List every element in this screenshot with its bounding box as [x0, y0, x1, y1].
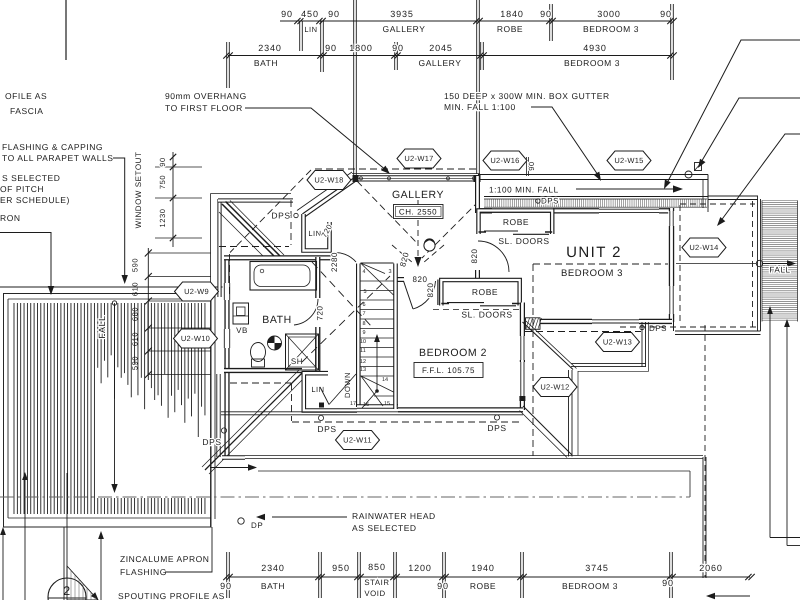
- gallery ceiling height box: [394, 205, 444, 219]
- right deck bottom edge: [675, 330, 761, 332]
- bottom leader lines under deck: [2, 529, 4, 600]
- svg-text:ROBE: ROBE: [497, 24, 523, 34]
- svg-text:DP: DP: [251, 521, 263, 530]
- hexagon U2-W16: [483, 151, 527, 170]
- gallery ceiling point marker: [424, 240, 435, 251]
- bedroom3 door arc: [478, 241, 509, 272]
- svg-text:720: 720: [316, 306, 325, 321]
- svg-text:90: 90: [527, 161, 536, 170]
- svg-text:UNIT 2: UNIT 2: [566, 244, 622, 261]
- hexagon U2-W14: [682, 238, 726, 257]
- svg-text:U2-W11: U2-W11: [343, 436, 372, 445]
- hexagon U2-W15: [607, 151, 651, 170]
- svg-text:90: 90: [220, 581, 232, 591]
- eave double line below bedroom2: [221, 411, 523, 413]
- svg-text:U2-W14: U2-W14: [689, 243, 718, 252]
- stray wall line above plan: [65, 0, 67, 60]
- deck apron top line: [0, 286, 227, 288]
- ffl box: [414, 363, 483, 378]
- svg-text:DPS: DPS: [317, 424, 336, 434]
- bathtub: [250, 262, 317, 291]
- lower roof hip pair at bedroom3 south: [523, 322, 574, 370]
- svg-text:3: 3: [388, 269, 391, 275]
- svg-text:590: 590: [131, 258, 140, 272]
- svg-text:150 DEEP x 300W MIN. BOX GUTTE: 150 DEEP x 300W MIN. BOX GUTTER: [444, 91, 610, 101]
- lower roof north parapet wall: [218, 198, 293, 202]
- linen LIN1 closet walls: [304, 214, 330, 251]
- bath south wall: [224, 368, 302, 373]
- deck fall arrow: [112, 301, 116, 305]
- gallery dashed fall V lines: [357, 181, 416, 242]
- svg-text:3935: 3935: [390, 9, 414, 19]
- svg-text:2060: 2060: [699, 563, 723, 573]
- lower roof outer thin boundary: [578, 322, 649, 456]
- svg-text:4930: 4930: [583, 43, 607, 53]
- lower roof ridge diagonals: [222, 204, 274, 256]
- svg-text:8: 8: [362, 321, 365, 327]
- window U2-W10 in bath west wall: [223, 329, 232, 348]
- svg-text:DOWN: DOWN: [343, 372, 352, 398]
- window U2-W13b in bedroom2 east wall: [519, 336, 525, 360]
- svg-text:RON: RON: [0, 213, 21, 223]
- svg-text:U2-W18: U2-W18: [314, 176, 343, 185]
- vanity basin VB: [233, 303, 249, 324]
- svg-text:ROBE: ROBE: [470, 581, 496, 591]
- robe2 left wall: [437, 280, 442, 306]
- svg-text:U2-W13: U2-W13: [603, 338, 632, 347]
- svg-text:2280: 2280: [330, 252, 339, 272]
- svg-text:SL. DOORS: SL. DOORS: [498, 236, 549, 246]
- bedroom2 east wall: [520, 303, 525, 411]
- svg-text:OFILE AS: OFILE AS: [5, 91, 47, 101]
- deck parapet inner lines: [8, 298, 211, 300]
- svg-text:U2-W17: U2-W17: [404, 154, 433, 163]
- svg-text:5: 5: [363, 289, 366, 295]
- lower roof thin boundary: [210, 194, 212, 528]
- svg-text:90: 90: [540, 9, 552, 19]
- bath door arc: [294, 299, 318, 325]
- window setout dimension line upper: [172, 152, 174, 247]
- svg-text:U2-W15: U2-W15: [614, 156, 643, 165]
- lower roof eave edge below bedroom3: [571, 363, 646, 365]
- box gutter outline: [478, 174, 708, 176]
- stair top winder lines: [361, 262, 394, 264]
- leader box gutter: [531, 107, 600, 178]
- svg-text:RAINWATER HEAD: RAINWATER HEAD: [352, 511, 436, 521]
- bath north wall: [224, 255, 331, 260]
- svg-text:DPS: DPS: [271, 211, 290, 221]
- svg-text:FLASHING & CAPPING: FLASHING & CAPPING: [2, 142, 103, 152]
- gutter fall arrow: [576, 188, 676, 190]
- LIN2 door leaf: [320, 387, 329, 405]
- window U2-W14 in east wall: [668, 286, 675, 314]
- dimension row 1 extension lines: [299, 21, 301, 51]
- svg-text:90: 90: [437, 581, 449, 591]
- window setout dimension line lower: [147, 248, 149, 380]
- svg-text:DPS: DPS: [202, 437, 221, 447]
- svg-text:15: 15: [384, 401, 390, 407]
- bedroom3 west wall upper: [475, 176, 480, 213]
- corridor south wall: [222, 455, 245, 460]
- shower SH: [286, 334, 319, 370]
- toilet WC: [251, 343, 266, 362]
- callout leader 1: [666, 40, 800, 185]
- lower balcony edge lines: [245, 455, 703, 457]
- svg-text:450: 450: [301, 9, 319, 19]
- bedroom2 south wall: [398, 407, 523, 412]
- dimension row 1 line: [280, 20, 672, 22]
- gallery west diagonal wall: [304, 179, 356, 216]
- lower roof eave right edge: [641, 322, 643, 367]
- svg-text:17: 17: [350, 401, 356, 407]
- svg-text:U2-W12: U2-W12: [540, 383, 569, 392]
- right deck hatch strip: [762, 200, 798, 202]
- callout leader 2: [700, 98, 800, 164]
- stair bottom wall: [357, 404, 398, 409]
- svg-text:WINDOW SETOUT: WINDOW SETOUT: [134, 152, 143, 229]
- svg-text:U2-W16: U2-W16: [490, 156, 519, 165]
- bedroom3 east wall: [669, 208, 674, 322]
- svg-text:11: 11: [360, 348, 366, 354]
- svg-text:MIN. FALL 1:100: MIN. FALL 1:100: [444, 102, 516, 112]
- window U2-W12 in bedroom2 east wall: [519, 362, 525, 396]
- bath east wall upper: [315, 257, 320, 298]
- svg-text:1:100 MIN. FALL: 1:100 MIN. FALL: [489, 186, 559, 195]
- svg-text:90: 90: [158, 157, 167, 166]
- robe2 closet: [441, 280, 519, 306]
- bottom dimension ticks: [223, 574, 229, 580]
- svg-text:SPOUTING PROFILE AS: SPOUTING PROFILE AS: [118, 591, 225, 600]
- hexagon U2-W9: [175, 282, 219, 301]
- svg-text:750: 750: [158, 175, 167, 189]
- svg-text:820: 820: [426, 283, 435, 298]
- lower roof dashed line inside band: [525, 331, 641, 333]
- svg-text:BATH: BATH: [261, 581, 285, 591]
- svg-text:LIN: LIN: [304, 25, 317, 34]
- hexagon U2-W12: [533, 378, 577, 397]
- dashed roof jog in corridor: [230, 382, 291, 384]
- right deck dashed outline: [679, 205, 681, 325]
- dimension row 1 ticks: [294, 18, 300, 24]
- svg-text:90: 90: [281, 9, 293, 19]
- callout leader 3: [720, 134, 800, 222]
- LIN2 walls: [304, 373, 357, 410]
- svg-text:90: 90: [660, 9, 672, 19]
- deck outer boundary: [4, 294, 212, 528]
- right deck left connection: [707, 196, 709, 212]
- svg-text:BATH: BATH: [254, 58, 278, 68]
- svg-text:90: 90: [392, 43, 404, 53]
- svg-text:S SELECTED: S SELECTED: [2, 173, 60, 183]
- lower roof dashed outline: [290, 200, 292, 245]
- window in east wall upper: [668, 211, 675, 226]
- bath east wall lower: [315, 327, 320, 371]
- leader apron: [0, 233, 51, 290]
- svg-text:1840: 1840: [500, 9, 524, 19]
- corridor west thin double: [216, 374, 218, 457]
- detail bubble leader and flag: [66, 473, 68, 578]
- window U2-W9 in bath west wall: [223, 283, 232, 300]
- gallery west diagonal thin eave line: [297, 172, 352, 211]
- svg-text:9: 9: [362, 330, 365, 336]
- gutter dim 90 rotated: [525, 157, 527, 176]
- leader overhang: [245, 108, 387, 171]
- hexagon U2-W17: [397, 149, 441, 168]
- deck up arrow: [24, 477, 26, 600]
- balcony east edge verticals: [702, 457, 704, 578]
- svg-text:U2-W10: U2-W10: [181, 334, 210, 343]
- svg-text:90: 90: [328, 9, 340, 19]
- svg-text:GALLERY: GALLERY: [383, 24, 426, 34]
- dashed roof diagonal crossing stair up: [302, 276, 390, 362]
- LIN1 door arc: [331, 253, 356, 262]
- dashed eave line below bedroom2: [292, 421, 523, 423]
- svg-text:ROBE: ROBE: [503, 217, 529, 227]
- dimension row 2 line: [228, 55, 672, 57]
- svg-text:BEDROOM 2: BEDROOM 2: [419, 347, 487, 359]
- dps below bedroom2: [494, 415, 499, 420]
- svg-text:2340: 2340: [258, 43, 282, 53]
- svg-text:STAIR: STAIR: [364, 578, 389, 587]
- lower roof hip pair at bedroom2 SE: [523, 406, 572, 455]
- svg-text:FASCIA: FASCIA: [10, 106, 44, 116]
- deck corrugated roof hatching: [13, 303, 15, 514]
- svg-text:7: 7: [362, 311, 365, 317]
- svg-text:BATH: BATH: [262, 314, 291, 326]
- svg-text:ER SCHEDULE): ER SCHEDULE): [0, 195, 70, 205]
- bottom dimension extension lines: [226, 552, 228, 598]
- dimension row 2 ticks: [223, 52, 229, 58]
- dps left of corridor: [221, 428, 226, 433]
- svg-text:GALLERY: GALLERY: [419, 58, 462, 68]
- hexagon U2-W13: [596, 333, 640, 352]
- centreline dash-dot horizontal: [0, 496, 690, 498]
- hexagon U2-W18: [307, 171, 351, 190]
- svg-text:CH. 2550: CH. 2550: [399, 208, 437, 217]
- svg-text:ROBE: ROBE: [472, 287, 498, 297]
- right deck fall label and arrow: [756, 260, 762, 266]
- bath west wall: [224, 256, 229, 457]
- lower roof eave edge right of bedroom2: [568, 370, 570, 457]
- hexagon U2-W11: [336, 431, 380, 450]
- dashed roof line right of bedroom2: [532, 264, 534, 456]
- stair east wall: [393, 264, 398, 280]
- svg-text:TO ALL PARAPET WALLS: TO ALL PARAPET WALLS: [2, 153, 113, 163]
- svg-text:90mm OVERHANG: 90mm OVERHANG: [165, 91, 247, 101]
- svg-text:DPS: DPS: [649, 324, 667, 333]
- svg-text:1200: 1200: [408, 563, 432, 573]
- leader parapet walls: [113, 158, 125, 278]
- svg-text:90: 90: [662, 578, 674, 588]
- window U2-W16 in north wall: [492, 208, 553, 214]
- window U2-W15 in north wall: [599, 208, 659, 214]
- svg-text:820: 820: [470, 249, 479, 264]
- right deck right edge: [757, 196, 759, 331]
- svg-text:GALLERY: GALLERY: [392, 189, 444, 201]
- dps below stair: [318, 415, 323, 420]
- bedroom3 north wall: [478, 208, 672, 213]
- datum symbol: [268, 336, 282, 350]
- bedroom3 south wall corner join: [673, 322, 675, 331]
- bedroom2 door leaf and arc: [404, 281, 414, 309]
- bedroom2 north wall segment: [396, 277, 404, 282]
- bedroom3 south wall: [525, 319, 672, 324]
- detail bubble 2: [48, 578, 86, 605]
- svg-text:VB: VB: [236, 326, 248, 335]
- svg-text:850: 850: [368, 562, 386, 572]
- DP circle and label: [238, 518, 244, 524]
- svg-text:1800: 1800: [349, 43, 373, 53]
- bottom left arrow: [712, 595, 750, 597]
- svg-text:BEDROOM 3: BEDROOM 3: [562, 581, 618, 591]
- svg-text:AS SELECTED: AS SELECTED: [352, 523, 417, 533]
- right deck up arrows: [769, 311, 771, 538]
- zincalume leader: [165, 527, 212, 572]
- svg-text:DPS: DPS: [541, 197, 559, 206]
- dps right bedroom3: [640, 325, 644, 329]
- stair bottom winders: [361, 376, 394, 392]
- stair treads: [361, 280, 394, 282]
- box gutter hatch: [484, 199, 486, 207]
- gallery north window wall: [352, 173, 480, 175]
- gallery dashed roof lines: [315, 168, 480, 170]
- dashed roof diagonal crossing landing down: [312, 262, 372, 327]
- svg-text:4: 4: [362, 269, 365, 275]
- gutter rainwater outlet: [685, 171, 692, 178]
- right deck top edge: [708, 195, 758, 197]
- svg-text:DPS: DPS: [487, 423, 506, 433]
- svg-text:90: 90: [325, 43, 337, 53]
- svg-text:FLASHING: FLASHING: [120, 567, 167, 577]
- svg-text:TO FIRST FLOOR: TO FIRST FLOOR: [165, 103, 243, 113]
- svg-text:950: 950: [332, 563, 350, 573]
- svg-text:BEDROOM 3: BEDROOM 3: [583, 24, 639, 34]
- dimension row 2 extension lines: [226, 42, 228, 88]
- lower roof west parapet wall: [217, 199, 221, 297]
- bottom dimension line: [228, 576, 750, 578]
- svg-text:12: 12: [360, 359, 366, 365]
- svg-text:1940: 1940: [471, 563, 495, 573]
- svg-text:ZINCALUME APRON: ZINCALUME APRON: [120, 554, 210, 564]
- gutter DPS label: [536, 199, 540, 203]
- svg-text:F.F.L. 105.75: F.F.L. 105.75: [422, 366, 475, 375]
- svg-text:FALL: FALL: [769, 266, 790, 275]
- svg-text:2340: 2340: [261, 563, 285, 573]
- svg-text:FALL: FALL: [97, 315, 107, 338]
- svg-text:3745: 3745: [585, 563, 609, 573]
- svg-text:OF PITCH: OF PITCH: [0, 184, 44, 194]
- robe1 closet: [479, 211, 553, 235]
- window U2-W13 in south wall: [592, 318, 639, 324]
- svg-text:U2-W9: U2-W9: [184, 287, 209, 296]
- stair direction arrow: [376, 338, 378, 391]
- svg-text:16: 16: [363, 402, 369, 408]
- svg-text:14: 14: [382, 377, 388, 383]
- section cut lines lower bundle: [202, 370, 299, 467]
- hatched corner pier bedroom3 SW: [526, 318, 541, 330]
- svg-text:10: 10: [360, 339, 366, 345]
- stair west wall: [356, 264, 361, 408]
- hexagon U2-W10: [174, 329, 218, 348]
- svg-text:1230: 1230: [158, 209, 167, 228]
- svg-text:BEDROOM 3: BEDROOM 3: [561, 268, 623, 279]
- svg-text:VOID: VOID: [364, 589, 385, 598]
- bedroom3 west wall lower: [475, 270, 480, 281]
- svg-text:SH: SH: [291, 357, 303, 366]
- overflow arrow through deck wall: [210, 467, 251, 469]
- rainwater leader arrow: [272, 516, 347, 518]
- svg-text:BEDROOM 3: BEDROOM 3: [564, 58, 620, 68]
- svg-text:3000: 3000: [597, 9, 621, 19]
- svg-text:2045: 2045: [429, 43, 453, 53]
- dashed line below robe2: [433, 309, 519, 311]
- svg-text:13: 13: [360, 367, 366, 373]
- svg-text:SL. DOORS: SL. DOORS: [461, 310, 512, 320]
